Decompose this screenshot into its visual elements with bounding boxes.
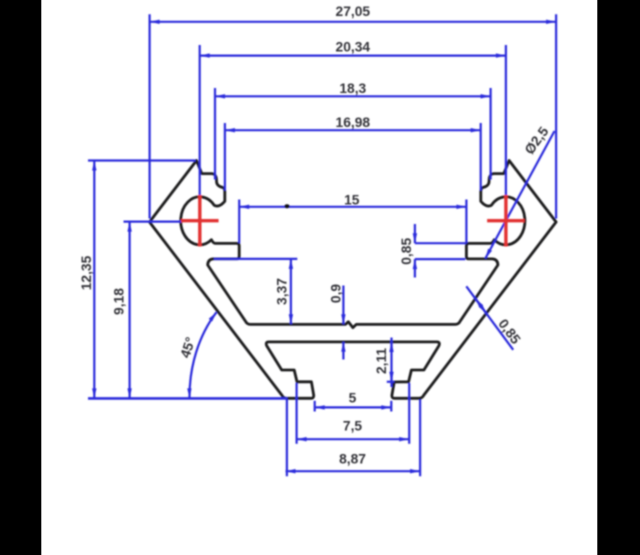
leader 0,85 arrow up [475,298,479,303]
dim 0,85 right ext top [415,242,466,244]
dim 2,11 ext bottom [387,381,395,383]
left black bar [0,0,41,555]
dim 20,34 ext left [199,45,201,195]
dim 16,98 ext left [224,123,226,191]
right black bar [597,0,640,555]
leader 0,85 arrow down [483,309,487,314]
svg-text:0,85: 0,85 [399,238,414,265]
dim 18,3 ext left [214,88,216,180]
dim 0,9 line upper [342,286,344,325]
dim 18,3 line [215,95,491,97]
svg-text:27,05: 27,05 [336,4,371,19]
svg-text:18,3: 18,3 [339,81,366,96]
dim 2,11 arrow down [390,372,392,382]
dim 5 line [315,406,392,408]
dim 12,35/9,18 ext bottom [88,397,288,400]
svg-text:9,18: 9,18 [112,288,127,315]
dim 9,18 line [129,222,131,399]
dim 3,37 line [290,259,292,324]
dim 5 ext left [314,401,316,412]
dim 15 ext left [238,200,240,244]
dim 8,87 ext right [419,400,421,477]
dim 16,98 ext right [480,123,482,191]
dim 0,9 line lower [342,342,344,360]
crosshair right hole [487,195,525,247]
dim 12,35 line [93,161,95,399]
stray ink dot on 15 dim line [284,204,289,208]
svg-text:20,34: 20,34 [336,40,371,55]
dim 27,05 line [150,21,556,23]
svg-text:7,5: 7,5 [343,419,363,434]
dim 12,35 ext top [88,159,196,161]
dim 15 line [239,206,466,208]
dim 20,34 line [200,54,506,56]
dim 0,85 right line lower [414,259,416,277]
svg-text:2,11: 2,11 [374,348,389,374]
dim 18,3 ext right [490,88,492,180]
dim 3,37 ext top [214,258,297,260]
svg-text:5: 5 [349,391,357,406]
dim 0,85 right ext bottom [415,258,465,260]
leader 0,85 diagonal [466,286,513,350]
dim 7,5 line [297,438,410,440]
dim 8,87 ext left [286,400,288,477]
svg-text:3,37: 3,37 [275,278,290,305]
dim 5 ext right [390,401,392,412]
dim 0,85 right line upper [414,224,416,243]
svg-text:8,87: 8,87 [339,452,366,467]
dim 9,18 ext top [124,221,182,223]
dim 20,34 ext right [505,45,507,195]
dim 2,11 line [390,338,392,388]
dim 15 ext right [465,200,467,244]
dim 8,87 line [286,470,421,472]
dim 7,5 ext left [296,383,298,444]
dim 16,98 line [225,129,481,131]
dim 45 arc [189,312,216,398]
crosshair left hole [181,195,219,247]
dim 2,11 arrow up [390,342,392,352]
leader diameter 2,5 [485,131,554,259]
dim 27,05 ext left [149,14,151,218]
dim 7,5 ext right [408,383,410,444]
profile outline [150,161,557,399]
svg-text:16,98: 16,98 [336,115,371,130]
svg-text:12,35: 12,35 [79,255,94,290]
svg-text:15: 15 [344,192,360,207]
dim 27,05 ext right [555,14,557,218]
svg-text:0,9: 0,9 [329,284,344,304]
